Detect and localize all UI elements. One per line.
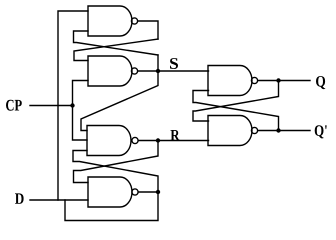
nand gate U3 body (3-input) xyxy=(87,126,131,156)
label CP xyxy=(6,100,22,111)
nand gate U6 bubble xyxy=(251,127,257,133)
node U4 output junction dot xyxy=(156,190,160,194)
nand gate U5 body xyxy=(208,66,252,96)
nand gate U4 bubble xyxy=(132,189,138,195)
wire node R down diagonal to U4 input 1 xyxy=(74,141,159,183)
label S xyxy=(170,58,178,69)
label Q' xyxy=(315,125,327,138)
wire U2 output to node S xyxy=(139,70,159,72)
nand gate U4 body xyxy=(88,177,132,207)
wire bottom feedback loop from U4 output xyxy=(65,192,158,221)
label D xyxy=(15,193,24,203)
wire CP up branch to U2 input 2 xyxy=(73,81,89,106)
wire node S down diagonal to U3 input 1 xyxy=(81,71,158,131)
label Q xyxy=(316,76,325,89)
nand gate U1 bubble xyxy=(131,18,137,24)
wire U5 output to Q xyxy=(259,80,311,82)
wire S feedback diagonal to U1 input 2 xyxy=(74,31,159,55)
node S junction dot xyxy=(156,69,160,73)
wire U4 output to node xyxy=(139,191,158,193)
wire D input horizontal xyxy=(30,199,88,201)
wire crossing diagonal U1 out to U2 input 1 xyxy=(74,39,158,61)
wire U3 output to node R xyxy=(139,140,158,142)
node CP junction dot xyxy=(70,103,74,107)
label R xyxy=(171,130,180,140)
nand gate U2 bubble xyxy=(131,68,137,74)
nand gate U6 body xyxy=(208,116,252,146)
wire node Q down diagonal to U6 input 1 xyxy=(193,81,279,122)
node R junction dot xyxy=(156,138,160,142)
nand gate U3 bubble xyxy=(132,137,138,143)
node Q' junction dot xyxy=(276,128,280,132)
wire U6 output to Q' xyxy=(259,130,311,132)
node Q junction dot xyxy=(276,78,280,82)
wire U1 output to crossing xyxy=(139,21,159,39)
wire node S up to feedback diagonal xyxy=(157,55,159,71)
wire S to U5 input 1 xyxy=(158,70,209,72)
wire U4 output node up to U1 input 1 (left vertical) xyxy=(58,11,88,200)
nand gate U2 body xyxy=(88,56,132,86)
nand gate U5 bubble xyxy=(251,77,257,83)
wire node R to U6 input 2 xyxy=(158,140,209,142)
nand gate U1 body xyxy=(88,6,132,36)
wire CP input horizontal xyxy=(30,105,73,107)
wire CP down branch to U3 input 2 xyxy=(73,106,88,141)
wire U4 output feedback diagonal up to U3 input 3 xyxy=(73,151,158,193)
wire node Q' up diagonal to U5 input 2 xyxy=(193,91,279,131)
